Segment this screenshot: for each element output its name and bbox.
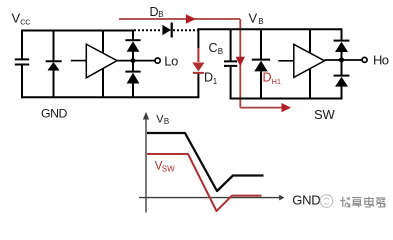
- wire: left box top rail: [21, 30, 134, 32]
- diode (Vcc clamp): [46, 30, 62, 99]
- wire: internal vertical (left box): [102, 30, 104, 99]
- op-amp buffer (high side): [278, 44, 324, 77]
- label V_B (circuit): [249, 10, 264, 26]
- terminal Lo: [155, 58, 160, 63]
- svg-text:GND: GND: [292, 192, 320, 207]
- wire: GND rail: [21, 96, 199, 98]
- svg-text:GND: GND: [41, 107, 68, 121]
- graph: horizontal axis with right arrow: [139, 195, 284, 201]
- diode (totem bottom, right box): [334, 60, 350, 99]
- diode D_1 (red) with wires: [192, 29, 204, 98]
- svg-text:H1: H1: [272, 77, 282, 86]
- diode D_H1 with wires: [252, 29, 270, 99]
- graph: vertical axis with up arrow: [143, 112, 149, 213]
- wire: dotted link left of D_B: [134, 29, 161, 31]
- diode (totem top, right box): [334, 29, 350, 60]
- red current path: vertical with down arrowhead: [236, 19, 245, 108]
- waveform V_B (black trace): [147, 133, 264, 191]
- op-amp buffer (low side): [71, 44, 117, 78]
- label D_H1 (red): [263, 71, 282, 86]
- svg-text:B: B: [258, 17, 263, 26]
- svg-text:CC: CC: [20, 17, 31, 26]
- svg-text:D: D: [204, 71, 213, 85]
- label D_1: [204, 71, 218, 87]
- svg-text:V: V: [249, 10, 258, 25]
- waveform V_SW (red trace): [147, 154, 262, 211]
- svg-text:V: V: [12, 11, 21, 26]
- label V_CC: [12, 11, 32, 27]
- node: Lo junction: [131, 58, 136, 63]
- red current path: top horizontal with arrowhead: [119, 14, 240, 23]
- diode (totem bottom, left box): [125, 61, 140, 99]
- svg-text:1: 1: [213, 77, 218, 86]
- svg-text:B: B: [158, 10, 163, 19]
- label V_SW (red): [155, 161, 175, 174]
- diode (totem top, left box): [125, 30, 140, 61]
- wire: dotted link right of D_B: [173, 29, 198, 31]
- label D_B: [150, 5, 164, 19]
- watermark text 松哥电源 (drawn glyph blocks): [340, 197, 386, 208]
- capacitor C_B with wires: [224, 29, 237, 99]
- svg-text:SW: SW: [162, 165, 175, 174]
- svg-text:Ho: Ho: [373, 53, 389, 68]
- svg-text:C: C: [209, 41, 218, 55]
- wire: left box left vertical: [21, 30, 23, 99]
- wire: op-amp output to Ho node: [325, 59, 363, 61]
- svg-text:SW: SW: [314, 107, 335, 122]
- wire: op-amp output to Lo node: [117, 60, 155, 62]
- svg-text:Lo: Lo: [164, 54, 178, 69]
- svg-text:B: B: [164, 117, 169, 126]
- svg-text:D: D: [150, 5, 159, 19]
- node: Ho junction: [339, 57, 344, 62]
- label C_B: [209, 41, 224, 56]
- label V_B (graph): [156, 113, 169, 126]
- terminal Ho: [362, 57, 367, 62]
- svg-text:B: B: [218, 47, 223, 56]
- wire: right box top rail (V_B): [198, 28, 343, 30]
- wire: internal vertical (right box): [309, 29, 311, 99]
- watermark logo circle: [320, 195, 334, 208]
- wire: SW rail: [230, 98, 343, 100]
- capacitor (Vcc bypass): [15, 59, 29, 64]
- diode D_B: [162, 23, 171, 38]
- red current path: bottom horizontal to SW with arrowhead: [240, 103, 291, 112]
- svg-text:D: D: [263, 71, 272, 85]
